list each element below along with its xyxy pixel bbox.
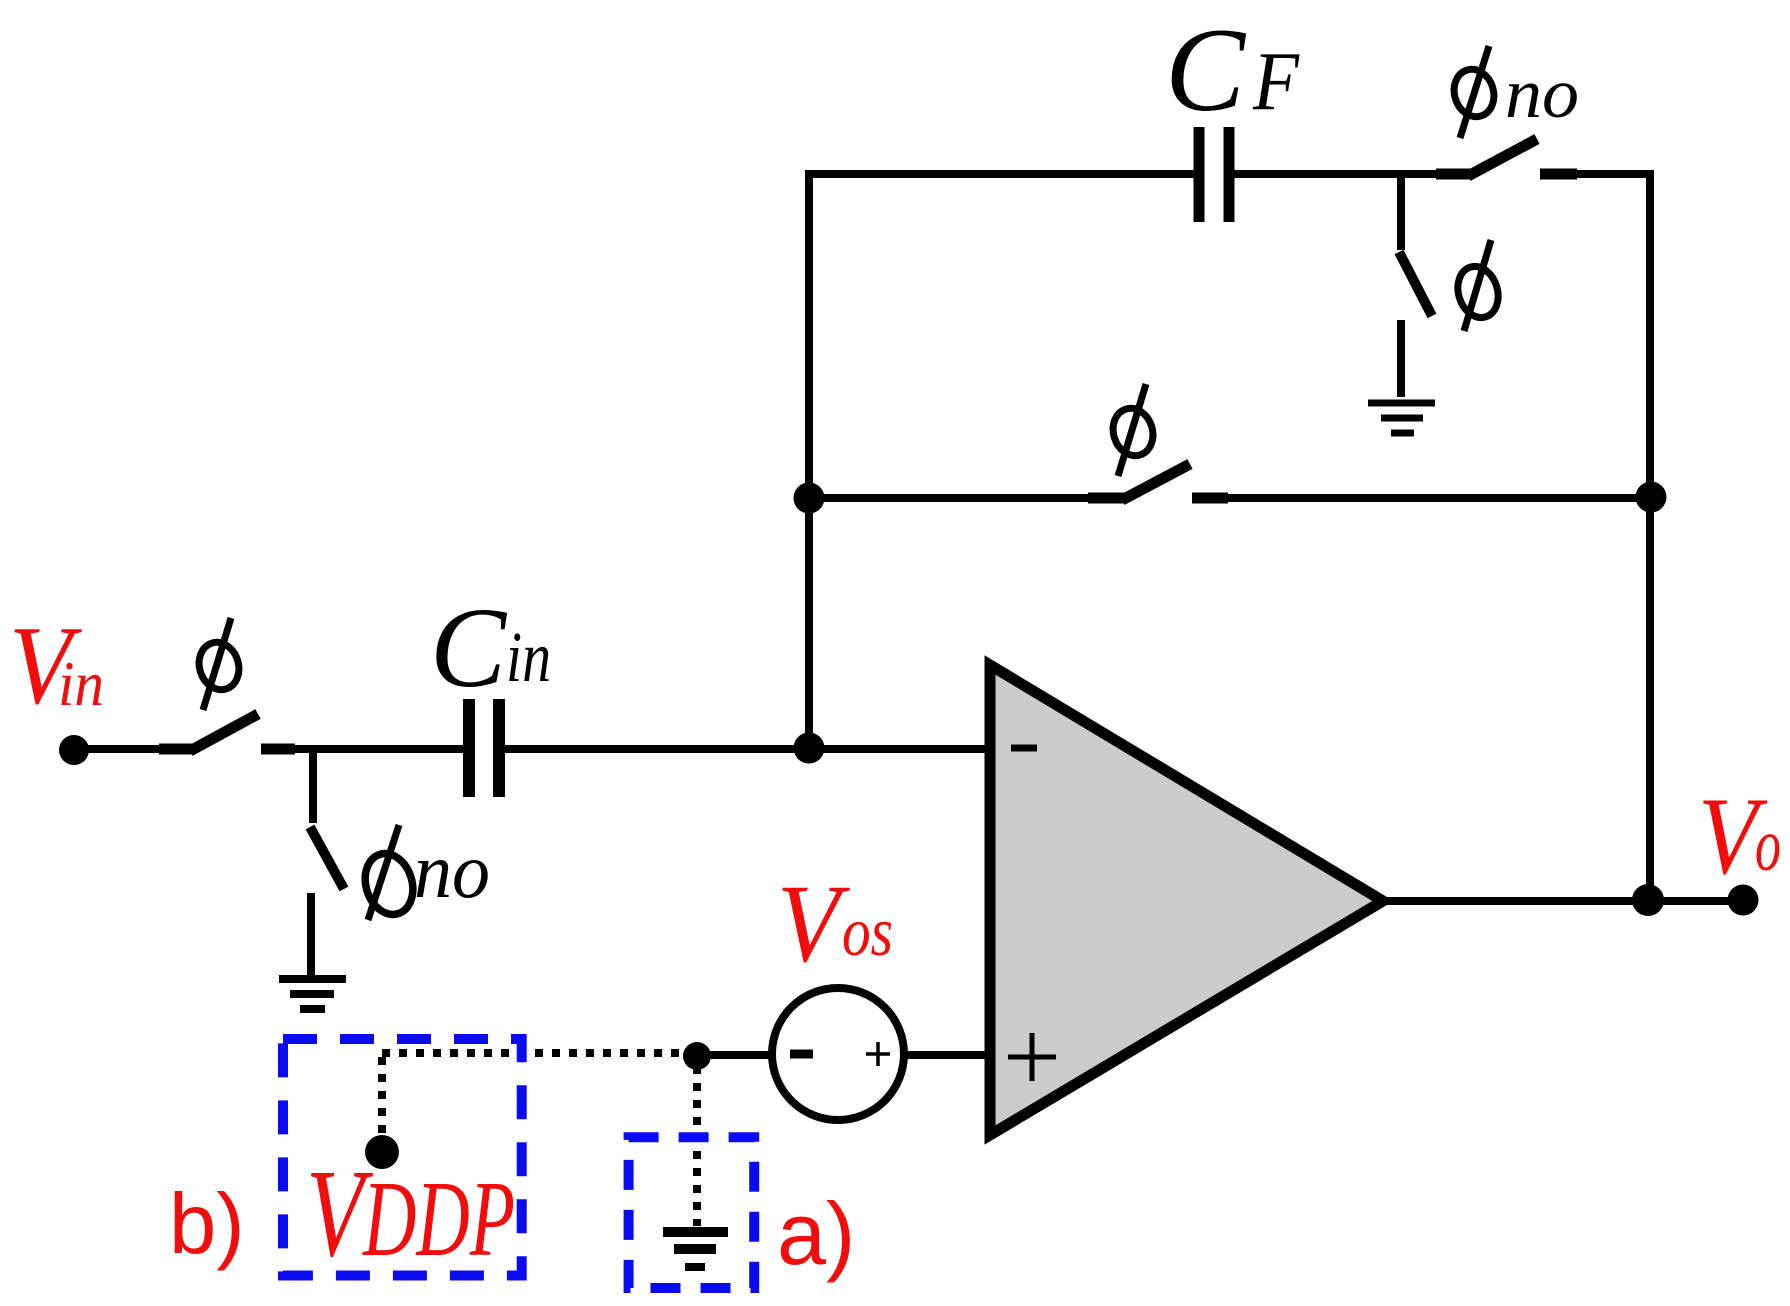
svg-text:no: no bbox=[414, 827, 490, 914]
label Vin bbox=[9, 604, 104, 728]
node junction output bbox=[1632, 884, 1664, 916]
node non-inverting reference bbox=[683, 1042, 711, 1070]
ground (input switch) bbox=[279, 979, 346, 1009]
label phi (middle feedback) bbox=[1107, 384, 1158, 476]
source Vos bbox=[772, 988, 904, 1120]
wire top feedback left segment bbox=[809, 170, 1194, 178]
label VDDP bbox=[306, 1145, 515, 1283]
wire CF to switch phi_no bbox=[1234, 170, 1437, 178]
op-amp U1 bbox=[990, 665, 1383, 1135]
box a) dashed bbox=[629, 1137, 755, 1288]
svg-text:b): b) bbox=[169, 1177, 245, 1272]
wire node to Vos bbox=[697, 1051, 774, 1059]
node junction inverting input bbox=[794, 733, 825, 764]
capacitor CF bbox=[1199, 127, 1229, 222]
svg-text:V: V bbox=[777, 863, 850, 986]
wire middle feedback row left bbox=[809, 494, 1090, 502]
node junction middle-right bbox=[1636, 482, 1667, 513]
switch phi (input) bbox=[159, 714, 295, 751]
wire Vos to op-amp non-inverting input bbox=[902, 1051, 988, 1059]
wire branch from phi_no node down bbox=[1397, 174, 1405, 250]
label phi_no (input ground switch) bbox=[358, 825, 490, 920]
wire Cin to op-amp inverting input bbox=[505, 745, 988, 753]
wire dotted VDDP branch bbox=[378, 1057, 386, 1136]
label phi (input switch) bbox=[193, 618, 244, 710]
svg-text:C: C bbox=[430, 584, 508, 711]
label phi (top right ground switch) bbox=[1452, 240, 1504, 331]
wire left vertical (inverting node to top) bbox=[805, 170, 813, 749]
label b) bbox=[169, 1177, 245, 1272]
switch phi (middle feedback) bbox=[1088, 464, 1228, 500]
terminal VDDP bbox=[365, 1135, 399, 1169]
label Cin bbox=[430, 584, 551, 711]
wire switch phi_no to top right corner bbox=[1577, 170, 1654, 178]
svg-text:C: C bbox=[1165, 3, 1247, 136]
switch phi_no (top right) bbox=[1436, 139, 1577, 176]
label Vos bbox=[777, 863, 893, 986]
svg-text:a): a) bbox=[777, 1184, 855, 1283]
box b) dashed bbox=[283, 1039, 522, 1276]
node junction middle-left bbox=[794, 483, 825, 514]
wire right vertical rail bbox=[1646, 170, 1654, 901]
wire middle feedback row right bbox=[1228, 494, 1650, 502]
svg-text:o: o bbox=[1755, 804, 1781, 887]
label Vo bbox=[1698, 775, 1781, 897]
terminal Vin bbox=[59, 735, 89, 765]
svg-text:no: no bbox=[1505, 55, 1579, 133]
capacitor Cin bbox=[469, 699, 499, 797]
wire branch down to phi_no ground switch bbox=[309, 749, 317, 823]
wire dotted ground branch (box a) bbox=[693, 1066, 701, 1226]
terminal Vo bbox=[1728, 885, 1759, 916]
ground (top right) bbox=[1368, 403, 1435, 433]
label CF bbox=[1165, 3, 1301, 136]
wire dotted reference net horizontal bbox=[382, 1049, 692, 1057]
svg-text:in: in bbox=[58, 648, 104, 719]
svg-text:os: os bbox=[842, 894, 893, 971]
switch phi_no (input to ground) bbox=[310, 827, 344, 975]
svg-text:F: F bbox=[1252, 35, 1300, 128]
ground (box a reference) bbox=[663, 1232, 728, 1267]
wire Vin to switch bbox=[74, 745, 161, 753]
wire switch to Cin bbox=[295, 745, 463, 753]
label phi_no (top right) bbox=[1448, 46, 1579, 138]
switch phi (to ground, top right) bbox=[1399, 252, 1432, 397]
label a) bbox=[777, 1184, 855, 1283]
svg-text:DDP: DDP bbox=[362, 1160, 515, 1279]
wire output bbox=[1380, 897, 1743, 905]
svg-text:in: in bbox=[506, 617, 551, 697]
